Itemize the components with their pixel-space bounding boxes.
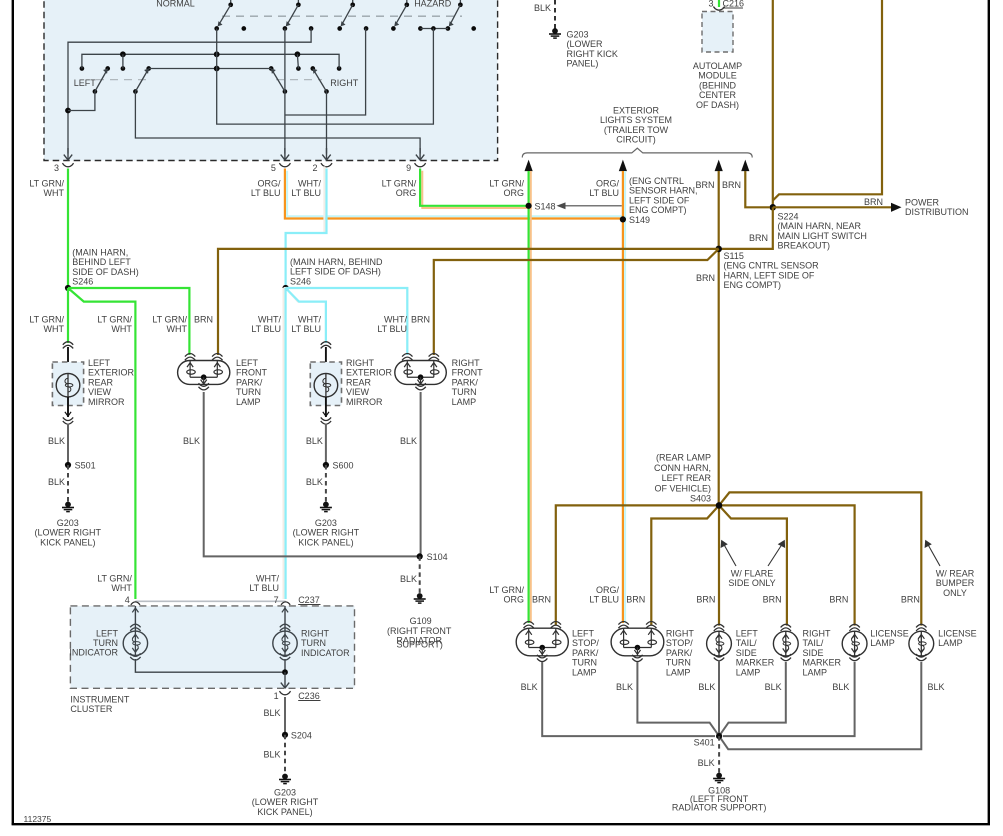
svg-text:RIGHT: RIGHT	[346, 358, 375, 368]
svg-text:SIDE ONLY: SIDE ONLY	[728, 578, 775, 588]
svg-text:OF VEHICLE): OF VEHICLE)	[654, 483, 711, 493]
svg-text:LT GRN/: LT GRN/	[29, 315, 64, 325]
svg-text:LT BLU: LT BLU	[251, 188, 281, 198]
svg-text:BRN: BRN	[829, 595, 848, 605]
svg-text:G109: G109	[410, 616, 432, 626]
wire H3 bus	[149, 68, 272, 70]
svg-text:LEFT SIDE OF: LEFT SIDE OF	[629, 195, 690, 205]
svg-text:WHT/: WHT/	[256, 574, 279, 584]
svg-text:EXTERIOR: EXTERIOR	[613, 106, 660, 116]
turn signal / hazard switch assembly box	[44, 0, 498, 161]
wire L2 bus	[82, 54, 339, 68]
svg-text:LT GRN/: LT GRN/	[489, 179, 524, 189]
svg-text:LT GRN/: LT GRN/	[382, 179, 417, 189]
wire BLK dashed S501 to G203	[67, 465, 69, 503]
svg-text:BLK: BLK	[263, 708, 280, 718]
svg-text:LEFT REAR: LEFT REAR	[662, 473, 712, 483]
wire pin5 feed	[284, 29, 286, 154]
hazard/normal switch contact set 2	[297, 0, 299, 5]
svg-text:WHT/: WHT/	[298, 179, 321, 189]
wire BRN S403 branch lower-right (right tail lamp)	[719, 505, 787, 625]
svg-text:STOP/: STOP/	[666, 638, 693, 648]
svg-text:5: 5	[271, 163, 276, 173]
svg-text:S501: S501	[75, 461, 96, 471]
svg-text:LT GRN/: LT GRN/	[97, 574, 132, 584]
svg-text:(MAIN HARN,: (MAIN HARN,	[72, 248, 128, 258]
wire BLK right front lamp to S104	[420, 392, 422, 556]
wire BLK left front lamp to S104	[204, 392, 417, 556]
svg-text:BRN: BRN	[411, 315, 430, 325]
svg-text:TURN: TURN	[301, 638, 326, 648]
svg-text:BLK: BLK	[183, 436, 200, 446]
wire BLK rear lamp6 to S401	[719, 662, 921, 749]
splice S115	[715, 246, 722, 253]
wire BLK dashed S600 to G203	[325, 465, 327, 503]
svg-text:CLUSTER: CLUSTER	[70, 704, 113, 714]
ganged switch linkage (dashed) top row	[222, 15, 462, 17]
svg-text:C236: C236	[298, 691, 320, 701]
svg-text:(ENG CNTRL SENSOR: (ENG CNTRL SENSOR	[724, 261, 820, 271]
svg-text:RIGHT: RIGHT	[666, 629, 695, 639]
wire BRN vertical 2 + jog to S224	[773, 0, 882, 201]
svg-text:NORMAL: NORMAL	[156, 0, 195, 9]
svg-text:PARK/: PARK/	[236, 377, 263, 387]
svg-text:FRONT: FRONT	[452, 368, 483, 378]
svg-text:(REAR LAMP: (REAR LAMP	[656, 453, 711, 463]
wire WHT/LT BLU S246 to cluster pin7	[283, 288, 285, 599]
wire LT GRN/ORG pin9 to S148	[422, 171, 528, 208]
license lamp 2	[916, 624, 926, 627]
svg-text:2: 2	[312, 163, 317, 173]
svg-text:TURN: TURN	[452, 387, 477, 397]
left front park/turn lamp	[185, 354, 195, 357]
arrow up to exterior lights 3	[715, 160, 723, 172]
splice S149	[620, 216, 626, 222]
wire switch1 chain to hazard bus	[217, 29, 434, 125]
svg-text:LICENSE: LICENSE	[870, 629, 909, 639]
svg-text:ORG: ORG	[396, 188, 417, 198]
wire BRN S115 to right front park lamp	[434, 249, 719, 355]
splice S148	[526, 203, 532, 209]
svg-text:LT GRN/: LT GRN/	[489, 585, 524, 595]
svg-text:MODULE: MODULE	[698, 71, 737, 81]
svg-text:TAIL/: TAIL/	[736, 638, 757, 648]
splice S401	[716, 733, 722, 739]
wire BRN S403 branch upper-right (license lamp 2)	[719, 492, 921, 625]
svg-text:S149: S149	[629, 215, 650, 225]
svg-text:ORG: ORG	[503, 188, 524, 198]
svg-text:SIDE: SIDE	[803, 648, 824, 658]
wire pin9 feed from LEFT switch 2	[135, 92, 420, 154]
svg-text:LAMP: LAMP	[938, 638, 963, 648]
wire BLK right mirror to S600	[325, 424, 327, 466]
wire BRN S403 branch left (left stop lamp)	[556, 505, 719, 625]
svg-text:ENG COMPT): ENG COMPT)	[724, 280, 782, 290]
svg-text:BRN: BRN	[696, 595, 715, 605]
splice S501	[65, 462, 71, 468]
svg-text:VIEW: VIEW	[88, 387, 112, 397]
wire pivot L1 jog	[68, 92, 95, 111]
svg-text:BLK: BLK	[698, 758, 715, 768]
svg-text:BRN: BRN	[696, 273, 715, 283]
svg-text:BREAKOUT): BREAKOUT)	[778, 241, 831, 251]
ground G203 cluster	[282, 774, 288, 780]
right stop/park/turn lamp	[618, 622, 628, 625]
svg-text:S246: S246	[72, 277, 93, 287]
hazard/normal switch contact set 4	[406, 0, 408, 5]
svg-text:MAIN LIGHT SWITCH: MAIN LIGHT SWITCH	[778, 231, 867, 241]
svg-text:ORG/: ORG/	[257, 179, 281, 189]
ground G109	[417, 593, 423, 599]
svg-text:LT BLU: LT BLU	[251, 324, 281, 334]
left stop/park/turn lamp	[524, 622, 534, 625]
hazard/normal switch contact set 5	[459, 0, 461, 5]
splice S204	[282, 732, 288, 738]
svg-text:BRN: BRN	[901, 595, 920, 605]
wire cluster to pin1	[284, 672, 286, 687]
svg-text:RIGHT: RIGHT	[330, 78, 359, 88]
autolamp module box	[702, 12, 733, 53]
svg-text:9: 9	[406, 163, 411, 173]
right exterior rear view mirror	[321, 342, 331, 345]
svg-text:(LOWER RIGHT: (LOWER RIGHT	[252, 797, 319, 807]
svg-text:AUTOLAMP: AUTOLAMP	[693, 61, 742, 71]
svg-text:LEFT: LEFT	[736, 629, 759, 639]
svg-text:LIGHTS SYSTEM: LIGHTS SYSTEM	[600, 115, 672, 125]
svg-text:(TRAILER TOW: (TRAILER TOW	[604, 125, 669, 135]
LEFT switch 1 (arm)	[105, 66, 110, 71]
right front park/turn lamp	[402, 354, 412, 357]
svg-text:WHT: WHT	[167, 324, 188, 334]
svg-text:ORG/: ORG/	[596, 585, 620, 595]
svg-text:BLK: BLK	[400, 574, 417, 584]
wire H7 link	[285, 29, 366, 116]
switch box pin 2	[326, 148, 328, 160]
page border right	[988, 0, 990, 825]
ground G203 top	[552, 28, 558, 34]
LEFT switch 2 (arm)	[146, 66, 151, 71]
svg-text:S204: S204	[291, 731, 312, 741]
wire BRN arrow4 to S224	[745, 171, 770, 207]
wire LT GRN/WHT S246 down to left mirror	[67, 288, 69, 343]
svg-text:ONLY: ONLY	[943, 588, 967, 598]
svg-text:3: 3	[708, 0, 713, 9]
ground G108	[716, 773, 722, 779]
svg-text:BRN: BRN	[695, 180, 714, 190]
svg-text:BLK: BLK	[698, 682, 715, 692]
svg-text:TURN: TURN	[572, 658, 597, 668]
svg-text:S403: S403	[690, 494, 711, 504]
svg-text:BLK: BLK	[48, 477, 65, 487]
svg-text:EXTERIOR: EXTERIOR	[88, 368, 135, 378]
svg-text:BLK: BLK	[400, 436, 417, 446]
svg-text:LT GRN/: LT GRN/	[152, 315, 187, 325]
svg-text:G203: G203	[315, 518, 337, 528]
ground G203 right mirror	[323, 502, 329, 508]
ganged switch linkage (dashed) RIGHT	[276, 79, 322, 81]
splice S246 (right)	[283, 285, 289, 291]
svg-text:FRONT: FRONT	[236, 368, 267, 378]
svg-text:BRN: BRN	[722, 180, 741, 190]
wire ORG/LT BLU arrow2 to rear lamps	[624, 171, 626, 623]
wire WHT/LT BLU S246 to right mirror	[286, 288, 326, 341]
cluster pin 1 / C236	[279, 691, 290, 695]
RIGHT switch 2 (arm)	[310, 66, 315, 71]
wire BRN S403 branch lower-left (right stop lamp)	[651, 505, 719, 625]
left exterior rear view mirror	[63, 342, 73, 345]
wire WHT/LT BLU S246 to right front park lamp	[284, 288, 408, 353]
ground G203 left mirror	[65, 502, 71, 508]
svg-text:BLK: BLK	[306, 477, 323, 487]
svg-text:S246: S246	[290, 276, 311, 286]
svg-text:BRN: BRN	[532, 595, 551, 605]
svg-text:LT BLU: LT BLU	[291, 324, 321, 334]
svg-text:WHT: WHT	[111, 583, 132, 593]
wire BRN S224 to power distribution	[773, 206, 894, 208]
svg-text:WHT/: WHT/	[258, 315, 281, 325]
svg-text:WHT: WHT	[44, 324, 65, 334]
svg-text:BEHIND LEFT: BEHIND LEFT	[72, 257, 131, 267]
svg-text:SIDE: SIDE	[736, 648, 757, 658]
license lamp 1	[849, 624, 859, 627]
svg-text:BLK: BLK	[927, 682, 944, 692]
wire BLK rear lamp4 to S401	[719, 662, 786, 736]
right turn indicator	[284, 606, 286, 631]
wire BLK C236 to S204	[284, 697, 286, 735]
svg-text:(MAIN HARN, NEAR: (MAIN HARN, NEAR	[778, 221, 862, 231]
svg-text:SIDE OF DASH): SIDE OF DASH)	[72, 267, 139, 277]
instrument cluster box	[70, 606, 354, 688]
svg-text:LT BLU: LT BLU	[589, 595, 619, 605]
svg-text:S115: S115	[724, 251, 744, 261]
svg-text:POWER: POWER	[905, 198, 940, 208]
svg-text:REAR: REAR	[346, 377, 372, 387]
svg-text:LT BLU: LT BLU	[377, 324, 407, 334]
svg-text:LAMP: LAMP	[236, 397, 261, 407]
svg-text:LEFT: LEFT	[88, 358, 111, 368]
svg-text:INSTRUMENT: INSTRUMENT	[70, 694, 129, 704]
svg-text:C237: C237	[298, 595, 320, 605]
svg-text:HARN, LEFT SIDE OF: HARN, LEFT SIDE OF	[724, 270, 815, 280]
svg-text:MIRROR: MIRROR	[346, 397, 383, 407]
svg-text:VIEW: VIEW	[346, 387, 370, 397]
svg-text:WHT/: WHT/	[384, 315, 407, 325]
svg-text:ENG COMPT): ENG COMPT)	[629, 205, 687, 215]
svg-text:LEFT SIDE OF DASH): LEFT SIDE OF DASH)	[290, 267, 381, 277]
svg-text:TURN: TURN	[236, 387, 261, 397]
svg-text:BUMPER: BUMPER	[936, 578, 975, 588]
wire BLK rear lamp3 to S401	[718, 660, 720, 736]
svg-text:S104: S104	[427, 552, 448, 562]
arrow up to exterior lights 1	[525, 160, 533, 172]
switch box pin 9	[419, 148, 421, 160]
wire BRN S224 down to S115	[719, 207, 773, 249]
wire BLK rear lamp2 to S401	[637, 662, 719, 736]
wire stub L2 contact	[122, 54, 124, 68]
wire LT GRN/WHT S246 to left front park lamp	[68, 288, 189, 355]
svg-text:(BEHIND: (BEHIND	[699, 80, 737, 90]
svg-text:(RIGHT FRONT: (RIGHT FRONT	[387, 626, 452, 636]
svg-text:RADIATOR SUPPORT): RADIATOR SUPPORT)	[672, 803, 767, 813]
svg-text:HAZARD: HAZARD	[414, 0, 452, 9]
wire stub L2 right contact	[297, 54, 298, 68]
svg-text:BRN: BRN	[763, 595, 782, 605]
switch box pin 3	[67, 148, 69, 160]
svg-text:PANEL): PANEL)	[567, 59, 599, 69]
svg-text:RIGHT KICK: RIGHT KICK	[567, 49, 618, 59]
right tail/side marker lamp	[781, 624, 791, 627]
svg-text:(ENG CNTRL: (ENG CNTRL	[629, 176, 684, 186]
svg-text:LT BLU: LT BLU	[291, 188, 321, 198]
svg-text:REAR: REAR	[88, 377, 114, 387]
svg-text:LAMP: LAMP	[736, 667, 761, 677]
arrow up to exterior lights 4	[741, 160, 749, 172]
svg-text:TURN: TURN	[666, 658, 691, 668]
svg-text:OF DASH): OF DASH)	[696, 100, 739, 110]
svg-text:ORG/: ORG/	[596, 179, 620, 189]
svg-text:LEFT: LEFT	[236, 358, 259, 368]
svg-text:BLK: BLK	[306, 436, 323, 446]
svg-text:BRN: BRN	[749, 233, 768, 243]
svg-text:(LOWER RIGHT: (LOWER RIGHT	[35, 528, 102, 538]
wire L1 bus to pin 3	[68, 29, 311, 154]
svg-text:PARK/: PARK/	[452, 377, 479, 387]
wire BLK dashed to G203	[554, 0, 556, 29]
svg-text:STOP/: STOP/	[572, 638, 599, 648]
wire BLK dashed S401 to G108	[718, 736, 720, 774]
wire LT GRN/ORG arrow1 to rear lamps	[530, 171, 532, 623]
svg-text:MARKER: MARKER	[803, 658, 842, 668]
svg-text:(LOWER: (LOWER	[567, 39, 604, 49]
svg-text:7: 7	[274, 595, 279, 605]
arrow into S148 from eng cntrl harn	[564, 205, 622, 207]
svg-text:RIGHT: RIGHT	[452, 358, 481, 368]
svg-text:S148: S148	[535, 202, 556, 212]
svg-text:SENSOR HARN,: SENSOR HARN,	[629, 186, 698, 196]
svg-text:MIRROR: MIRROR	[88, 397, 125, 407]
svg-text:TAIL/: TAIL/	[803, 638, 824, 648]
svg-text:WHT: WHT	[44, 188, 65, 198]
svg-text:112375: 112375	[24, 814, 52, 824]
svg-text:RIGHT: RIGHT	[803, 629, 832, 639]
RIGHT switch 1 (arm)	[269, 66, 274, 71]
wire pin2 feed	[326, 92, 328, 154]
wire BRN S403 branch right (license lamp)	[719, 505, 855, 625]
ganged switch linkage (dashed) LEFT	[96, 79, 146, 81]
svg-text:LT BLU: LT BLU	[589, 188, 619, 198]
splice S246 (left)	[65, 285, 71, 291]
svg-text:PARK/: PARK/	[666, 648, 693, 658]
wire BRN S403 down (left tail lamp)	[718, 505, 720, 625]
switch mini bus (hazard feed)	[420, 28, 448, 30]
svg-text:S600: S600	[333, 461, 354, 471]
wire BLK rear lamp1 to S401	[542, 662, 715, 736]
wire BLK dashed S204 to G203	[284, 735, 286, 775]
svg-text:BLK: BLK	[48, 436, 65, 446]
svg-text:BLK: BLK	[616, 682, 633, 692]
wire BRN vertical 1 to S224	[772, 0, 774, 207]
wire BLK left mirror to S501	[67, 424, 69, 466]
svg-text:PARK/: PARK/	[572, 648, 599, 658]
svg-text:(MAIN HARN, BEHIND: (MAIN HARN, BEHIND	[290, 257, 383, 267]
svg-text:MARKER: MARKER	[736, 658, 775, 668]
hazard/normal switch contact set 1	[230, 0, 232, 5]
svg-text:LAMP: LAMP	[870, 638, 895, 648]
svg-text:BRN: BRN	[864, 197, 883, 207]
svg-text:G203: G203	[567, 30, 589, 40]
svg-text:BLK: BLK	[521, 682, 538, 692]
junction cluster ground	[282, 669, 288, 675]
svg-text:DISTRIBUTION: DISTRIBUTION	[905, 207, 969, 217]
svg-text:LAMP: LAMP	[452, 397, 477, 407]
svg-text:4: 4	[125, 595, 130, 605]
svg-text:S224: S224	[778, 212, 799, 222]
svg-text:LT BLU: LT BLU	[249, 583, 279, 593]
svg-text:BLK: BLK	[832, 682, 849, 692]
svg-text:G203: G203	[274, 788, 296, 798]
wire ORG/LT BLU pin5 to S149	[287, 171, 623, 217]
brace exterior lights system	[522, 148, 752, 157]
svg-text:RIGHT: RIGHT	[301, 629, 330, 639]
wire LT GRN/WHT pin3 to S246	[67, 169, 69, 289]
svg-text:KICK PANEL): KICK PANEL)	[298, 537, 353, 547]
svg-text:LT GRN/: LT GRN/	[29, 179, 64, 189]
svg-text:BLK: BLK	[263, 750, 280, 760]
svg-text:(LOWER RIGHT: (LOWER RIGHT	[293, 528, 360, 538]
w/ flare side only arrows	[723, 543, 736, 567]
svg-text:WHT: WHT	[111, 324, 132, 334]
wire BRN S115 to left front park lamp	[218, 249, 719, 355]
wire WHT/LT BLU pin2 to S246 right	[286, 166, 325, 286]
connector C237 line	[135, 600, 285, 602]
left tail/side marker lamp	[714, 624, 724, 627]
page border left	[12, 0, 14, 825]
arrow up to exterior lights 2	[619, 160, 627, 172]
hazard/normal switch contact set 3	[352, 0, 354, 5]
svg-text:EXTERIOR: EXTERIOR	[346, 368, 393, 378]
svg-text:CONN HARN,: CONN HARN,	[654, 463, 711, 473]
svg-text:1: 1	[274, 691, 279, 701]
svg-text:C216: C216	[723, 0, 745, 9]
wire BLK rear lamp5 to S401	[723, 662, 855, 736]
wire BRN arrow3 through S115 to S403	[718, 171, 720, 505]
svg-text:3: 3	[54, 163, 59, 173]
splice S104	[417, 553, 423, 559]
wire LT GRN/WHT S246 to instrument cluster pin4	[68, 288, 135, 599]
svg-text:W/ REAR: W/ REAR	[936, 569, 975, 579]
svg-text:CENTER: CENTER	[699, 90, 737, 100]
svg-text:KICK PANEL): KICK PANEL)	[257, 807, 312, 817]
w/ rear bumper only arrow	[927, 543, 940, 567]
contact dots row	[80, 66, 85, 71]
left turn indicator	[134, 606, 136, 631]
switch box pin 5	[284, 148, 286, 160]
svg-text:INDICATOR: INDICATOR	[301, 648, 350, 658]
splice S224	[770, 204, 777, 211]
svg-text:W/ FLARE: W/ FLARE	[731, 569, 774, 579]
svg-text:BRN: BRN	[194, 315, 213, 325]
svg-text:BLK: BLK	[534, 3, 551, 13]
svg-text:LAMP: LAMP	[572, 667, 597, 677]
svg-text:LEFT: LEFT	[74, 78, 97, 88]
svg-text:LEFT: LEFT	[572, 629, 595, 639]
svg-text:LAMP: LAMP	[666, 667, 691, 677]
svg-text:KICK PANEL): KICK PANEL)	[40, 537, 95, 547]
svg-text:ORG: ORG	[503, 595, 524, 605]
svg-text:LICENSE: LICENSE	[938, 629, 977, 639]
svg-text:LAMP: LAMP	[803, 667, 828, 677]
wire BLK dashed S104 to G109	[419, 556, 421, 594]
